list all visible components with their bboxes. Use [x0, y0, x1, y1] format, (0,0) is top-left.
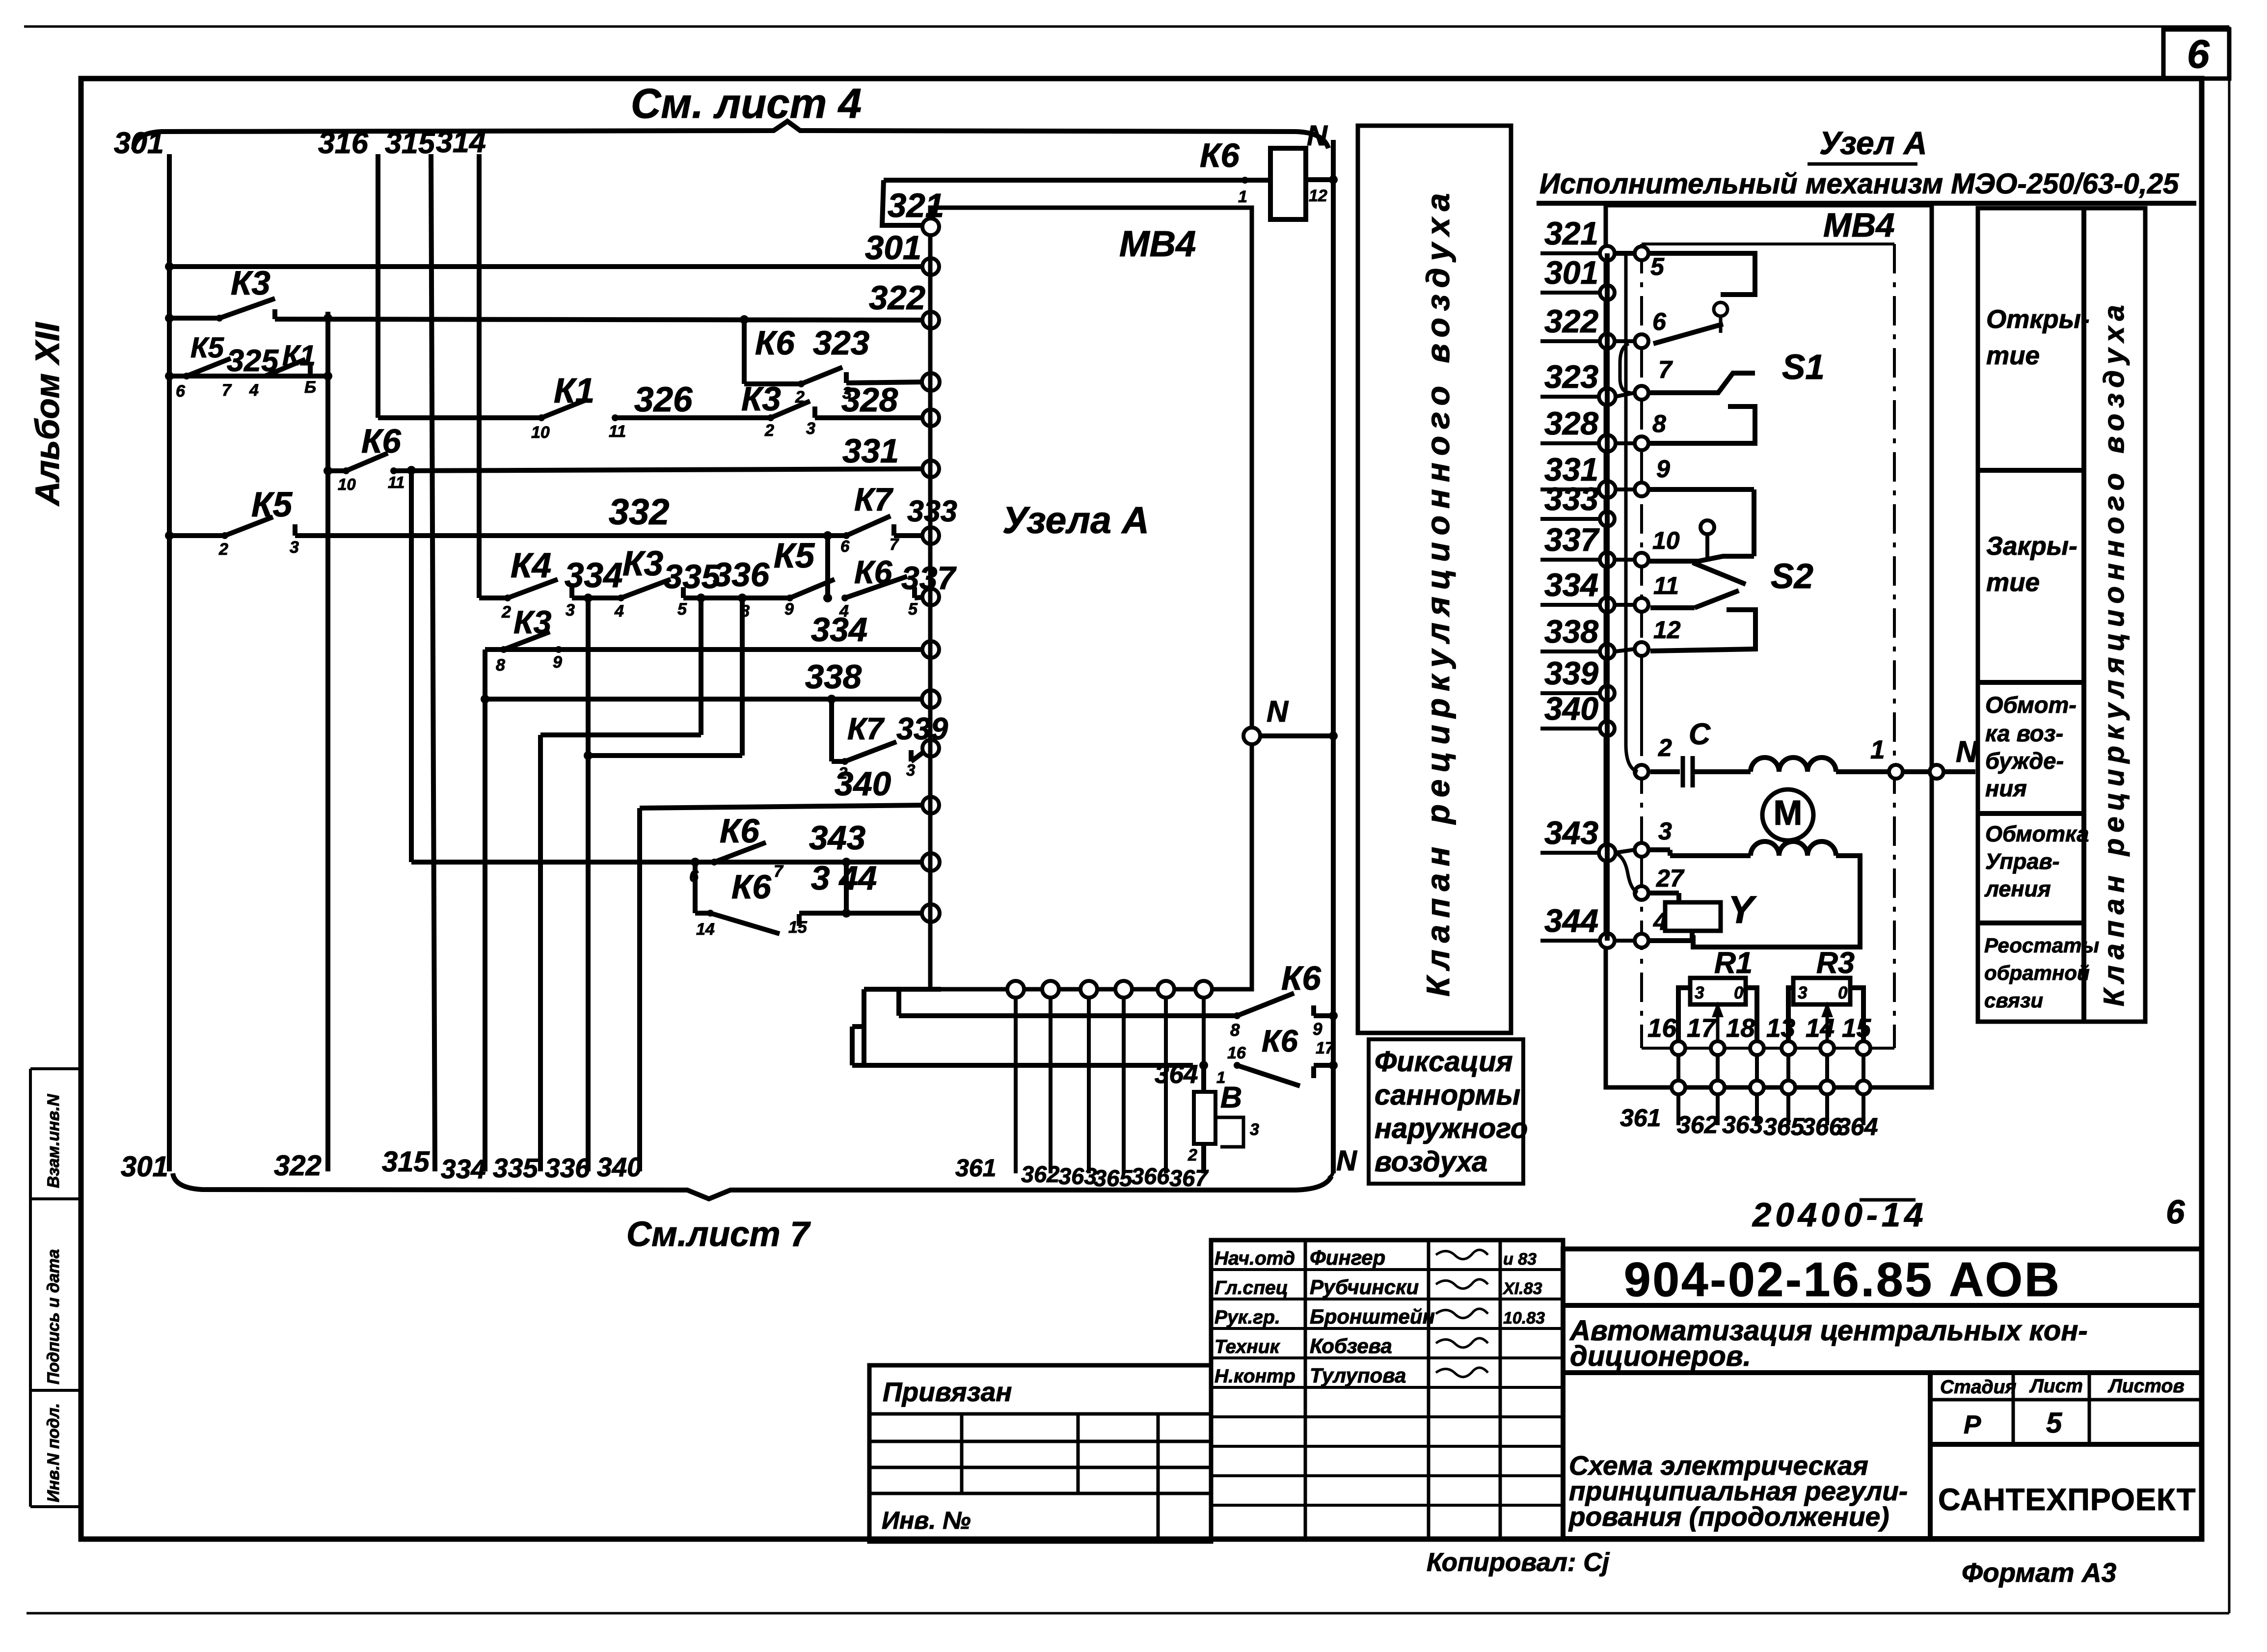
wire row 337 seg3 [683, 596, 790, 600]
contact K6 lower on row 344 [710, 913, 780, 934]
wire N bottom hook [1328, 1164, 1334, 1178]
title h line 2 [1563, 1370, 2202, 1375]
svg-text:наружного: наружного [1375, 1112, 1528, 1144]
node terminal 343 right panel [1599, 844, 1616, 861]
wire 321 corner [882, 180, 923, 225]
svg-text:8: 8 [1652, 410, 1666, 437]
rheostat R3 right terminal [1850, 988, 1863, 1045]
contact K5 on row 332 [225, 517, 273, 536]
stamp column tick 4 [30, 1505, 81, 1508]
node terminal 363 on box bottom [1080, 981, 1097, 998]
svg-text:Рук.гр.: Рук.гр. [1214, 1307, 1280, 1328]
wire terminal-pin link [1615, 393, 1635, 397]
junction row322 to K6-323 drop [740, 315, 749, 324]
svg-text:4: 4 [614, 602, 624, 621]
junction 336 riser [584, 594, 593, 602]
svg-text:6: 6 [840, 537, 850, 555]
actuator enclosure box [1606, 205, 1932, 1087]
switch S2 top riser [1752, 489, 1756, 556]
svg-text:6: 6 [176, 382, 186, 401]
wire node N to N bus [1260, 733, 1333, 738]
people row line 8 [1211, 1504, 1563, 1507]
svg-text:14: 14 [1806, 1014, 1835, 1043]
node 321 on box [922, 218, 939, 235]
svg-text:К1: К1 [554, 372, 594, 410]
node terminal 337 right panel [1600, 552, 1615, 567]
svg-text:воздуха: воздуха [1375, 1146, 1487, 1178]
svg-text:3: 3 [290, 538, 299, 557]
wire bus 316 vertical [376, 154, 380, 418]
node 344 on box [922, 904, 940, 922]
svg-text:Клапан рециркуляционного воз: Клапан рециркуляционного воздуха [2098, 299, 2130, 1006]
svg-text:Рубчински: Рубчински [1310, 1275, 1419, 1299]
svg-text:Узел А: Узел А [1819, 125, 1927, 161]
people row line 6 [1211, 1445, 1563, 1448]
wire row 337 seg2 [572, 596, 621, 600]
contact K5 on row 337 [790, 579, 835, 598]
contact K7 on row 339 [845, 742, 896, 761]
svg-text:14: 14 [696, 920, 715, 939]
node rheostat pin row1 0 [1672, 1041, 1685, 1055]
wire 335 branch horizontal [540, 732, 701, 737]
wire rheostat link 1 [1716, 1055, 1720, 1081]
svg-text:Y: Y [1728, 888, 1757, 931]
wire pin27 curve [1615, 853, 1638, 893]
svg-text:См. лист 4: См. лист 4 [631, 81, 862, 127]
svg-text:R3: R3 [1816, 946, 1855, 979]
svg-text:тие: тие [1986, 568, 2040, 597]
wire stub terminal 340 [1540, 727, 1599, 731]
svg-text:Техник: Техник [1214, 1336, 1281, 1357]
rheostat R3 wiper arrow [1826, 1004, 1829, 1045]
contact K1 on row 325 [265, 359, 305, 376]
people row line 0 [1211, 1268, 1563, 1271]
contact K6 on row 337 [845, 576, 907, 598]
svg-text:365: 365 [1094, 1165, 1133, 1191]
node terminal 334 right panel [1600, 597, 1615, 612]
node terminal 321 right panel [1600, 246, 1615, 261]
junction on wire 321 at coil pin1 [1241, 177, 1248, 184]
junction 338 to K7 drop [827, 695, 836, 704]
switch S1 plunger stem [1719, 316, 1723, 333]
wire pin12 down link [1640, 656, 1643, 756]
node rheostat pin row1 3 [1781, 1041, 1795, 1055]
page outer bottom border line [27, 1612, 2229, 1615]
switch S1 mid terminal [1649, 373, 1755, 393]
svg-text:N: N [1307, 120, 1328, 152]
wire drop 367 [1202, 997, 1206, 1065]
svg-text:322: 322 [1544, 303, 1598, 339]
wire row 322 right segment [272, 309, 277, 319]
svg-text:Р: Р [1964, 1410, 1981, 1439]
wire vertical connector A [862, 989, 866, 1065]
resistor tap bracket [1215, 1117, 1243, 1147]
node terminal 333 right panel [1600, 512, 1615, 526]
wire row 328 right [815, 415, 925, 420]
wire rheostat link 3 [1786, 1055, 1790, 1081]
svg-text:К5: К5 [190, 332, 224, 364]
node 322 on box [922, 312, 939, 328]
svg-text:331: 331 [842, 432, 899, 470]
svg-text:8: 8 [1230, 1021, 1240, 1040]
node 328 on box [922, 409, 939, 426]
wire row 328 middle [615, 415, 771, 420]
people col 2 [1427, 1240, 1430, 1539]
svg-text:333: 333 [1544, 481, 1598, 517]
svg-text:334: 334 [565, 556, 622, 595]
svg-text:0: 0 [1838, 983, 1848, 1002]
top brace wire to sheet 4 [134, 121, 1328, 149]
svg-text:К6: К6 [731, 868, 771, 906]
contact K6 pins 16-17 [1237, 1065, 1300, 1086]
wire control winding loop right [1693, 856, 1860, 947]
stage bottom line [1930, 1442, 2202, 1447]
node terminal 323 right panel [1599, 388, 1616, 405]
svg-text:340: 340 [597, 1152, 642, 1182]
wire drop 338 to row 339 [829, 699, 834, 761]
svg-text:См.лист 7: См.лист 7 [626, 1215, 811, 1254]
junction 344 drop on row 343 [842, 858, 851, 867]
svg-text:Нач.отд: Нач.отд [1214, 1248, 1295, 1269]
svg-text:904-02-16.85 АОВ: 904-02-16.85 АОВ [1624, 1252, 2061, 1306]
svg-text:361: 361 [955, 1154, 996, 1182]
svg-text:5: 5 [2046, 1407, 2062, 1439]
svg-text:К4: К4 [511, 546, 551, 585]
wire rheostat link 2 [1755, 1055, 1759, 1081]
description row divider 3 [1978, 811, 2084, 816]
contact K6 on row 323 [801, 367, 842, 384]
contact K3 on row 322 [219, 298, 275, 318]
svg-text:Привязан: Привязан [883, 1377, 1012, 1407]
svg-text:11: 11 [388, 473, 405, 491]
node terminal 322 right panel [1600, 334, 1615, 349]
svg-text:Бронштейн: Бронштейн [1310, 1305, 1435, 1328]
node 334 on box [922, 641, 939, 658]
contact K7 on row 332-333 [846, 516, 891, 536]
wire stub below 2 [1755, 1094, 1759, 1125]
switch S2 plunger stem [1705, 534, 1709, 560]
wire pin9 bar [1648, 487, 1754, 492]
wire row 301 [169, 264, 925, 269]
svg-text:301: 301 [121, 1151, 168, 1183]
node 343 on box [922, 853, 940, 871]
svg-text:Обмотка: Обмотка [1985, 821, 2089, 846]
svg-text:Н.контр: Н.контр [1214, 1366, 1295, 1387]
pin 3 node inner unit [1635, 843, 1648, 857]
svg-text:18: 18 [1726, 1014, 1755, 1043]
svg-text:362: 362 [1677, 1111, 1718, 1138]
wire drop 332 to row 337 [825, 536, 830, 598]
svg-text:рования (продолжение): рования (продолжение) [1568, 1501, 1889, 1532]
wire vertical 334 drop [483, 650, 487, 1171]
wire vertical connector C [850, 1027, 855, 1065]
wire row 325 from bus 301 [169, 374, 328, 379]
wire cap to winding [1693, 769, 1751, 774]
stage header underline [1930, 1398, 2202, 1402]
svg-text:К3: К3 [513, 604, 551, 640]
svg-text:К5: К5 [251, 486, 293, 524]
switch S2 plunger circle [1700, 520, 1714, 534]
svg-text:связи: связи [1984, 989, 2043, 1012]
wire row 323 drop from 322 [742, 320, 747, 384]
privyazan table box [869, 1365, 1211, 1542]
svg-text:340: 340 [1544, 690, 1598, 727]
svg-text:364: 364 [1155, 1060, 1198, 1089]
svg-text:Тулупова: Тулупова [1310, 1364, 1406, 1387]
wire rheostat link 4 [1825, 1055, 1829, 1081]
wire 321 horizontal to K6 coil [884, 178, 1270, 183]
privyazan h3 [869, 1466, 1211, 1469]
svg-text:343: 343 [809, 819, 865, 857]
inner switch unit chain line top [1642, 243, 1894, 245]
svg-text:Управ-: Управ- [1985, 849, 2060, 874]
wire stub terminal 321 [1540, 251, 1599, 255]
svg-text:10: 10 [1652, 527, 1680, 554]
wire resistor bottom [1201, 1144, 1206, 1173]
svg-text:5: 5 [1650, 253, 1665, 280]
svg-text:328: 328 [841, 381, 898, 419]
svg-text:Исполнительный механизм МЭО-: Исполнительный механизм МЭО-250/63-0,25 [1539, 168, 2179, 200]
wire stub below 5 [1862, 1094, 1865, 1125]
svg-text:322: 322 [274, 1150, 322, 1182]
wire rheostat link 5 [1862, 1055, 1865, 1081]
pin 5 node inner unit [1635, 246, 1648, 260]
wire coil to N bus [1306, 177, 1333, 182]
svg-text:326: 326 [634, 380, 693, 419]
control winding coil [1751, 841, 1836, 856]
svg-text:К6: К6 [1200, 136, 1240, 174]
svg-text:1: 1 [1870, 735, 1885, 764]
svg-text:К3: К3 [741, 380, 781, 418]
svg-text:Инв.N подл.: Инв.N подл. [44, 1403, 63, 1502]
svg-text:337: 337 [1544, 521, 1600, 558]
privyazan v3 [1157, 1414, 1160, 1542]
svg-text:321: 321 [1544, 215, 1598, 251]
svg-text:Узела А: Узела А [1002, 499, 1149, 542]
people row line 7 [1211, 1474, 1563, 1477]
wire terminal-pin link [1615, 603, 1635, 607]
contact K3 on row 328 [771, 401, 810, 418]
node rheostat pin row2 3 [1781, 1081, 1795, 1094]
pin 6 node inner unit [1635, 334, 1648, 348]
capacitor C plate 2 [1691, 756, 1695, 787]
svg-text:2: 2 [1658, 734, 1672, 761]
svg-text:К1: К1 [282, 340, 316, 372]
svg-text:334: 334 [441, 1154, 486, 1184]
rheostat R1 left terminal [1678, 988, 1690, 1045]
node terminal 362 on box bottom [1042, 981, 1059, 998]
svg-text:10: 10 [338, 475, 356, 493]
wire resistor top [1201, 1065, 1206, 1092]
svg-text:Обмот-: Обмот- [1985, 692, 2077, 718]
inner switch unit chain bottom [1642, 1047, 1894, 1050]
wire row n16-n17 right [1314, 1063, 1333, 1068]
wire row 344 right [799, 911, 925, 916]
inner switch unit chain line left [1640, 244, 1643, 1048]
svg-text:3: 3 [566, 601, 575, 620]
svg-text:301: 301 [1544, 254, 1598, 291]
node terminal 301 right panel [1600, 285, 1615, 300]
pin 4 node inner unit [1635, 934, 1648, 948]
motor M circle [1762, 789, 1813, 840]
contact K4 on row 337 [508, 579, 558, 598]
node terminal 366 on box bottom [1158, 981, 1174, 998]
svg-text:2: 2 [501, 603, 511, 622]
svg-text:С: С [1689, 717, 1711, 751]
svg-text:тие: тие [1986, 341, 2040, 370]
wire N stub right [1943, 769, 1975, 774]
switch S2 top wire [1648, 556, 1754, 561]
junction 336b riser [738, 594, 747, 602]
rheostat R3 left terminal [1788, 988, 1793, 1045]
node rheostat pin row1 1 [1711, 1041, 1725, 1055]
svg-text:и 83: и 83 [1503, 1250, 1537, 1269]
svg-text:338: 338 [805, 658, 862, 696]
svg-text:Фиксация: Фиксация [1375, 1046, 1513, 1078]
svg-text:3: 3 [1695, 983, 1704, 1002]
svg-text:К6: К6 [1262, 1024, 1298, 1058]
wire node1 to N node [1903, 769, 1930, 774]
svg-text:332: 332 [609, 491, 669, 532]
wire terminal 321 to pin5 links [1615, 251, 1635, 256]
svg-text:ка воз-: ка воз- [1985, 720, 2063, 746]
node rheostat pin row2 1 [1711, 1081, 1725, 1094]
wire row 334 [485, 647, 925, 652]
solenoid Y box [1665, 902, 1721, 931]
node terminal 328 right panel [1599, 435, 1616, 452]
svg-text:диционеров.: диционеров. [1570, 1340, 1751, 1372]
pin 12 node inner unit [1635, 642, 1648, 656]
wire pin27 to Y box [1648, 891, 1679, 895]
wire stub terminal 334 [1540, 603, 1599, 607]
svg-text:7: 7 [222, 381, 232, 400]
wire rheostat link 0 [1676, 1055, 1680, 1081]
wire row 337 to node [915, 597, 925, 598]
svg-text:К3: К3 [622, 544, 663, 583]
node rheostat pin row1 4 [1820, 1041, 1834, 1055]
svg-text:САНТЕХПРОЕКТ: САНТЕХПРОЕКТ [1938, 1483, 2196, 1517]
node 337 on box [922, 589, 939, 605]
privyazan h1 [869, 1412, 1211, 1416]
svg-text:8: 8 [496, 656, 505, 675]
block fiksaciya box [1369, 1039, 1523, 1184]
svg-text:Формат А3: Формат А3 [1962, 1557, 2116, 1588]
pin 3 stub [1640, 857, 1643, 884]
svg-text:К7: К7 [854, 481, 894, 517]
pin 11 node inner unit [1635, 598, 1648, 612]
wire bus N vertical [1331, 140, 1336, 1173]
wire stub terminal 343 [1540, 851, 1599, 855]
people signature 3 [1436, 1338, 1488, 1348]
svg-text:338: 338 [1544, 613, 1598, 650]
node rheostat pin row1 5 [1857, 1041, 1870, 1055]
block recirculation valve box [1358, 126, 1511, 1033]
svg-text:4: 4 [249, 381, 259, 400]
node 323 on box [922, 373, 940, 391]
rheostat R1 box [1690, 978, 1746, 1004]
svg-text:Кобзева: Кобзева [1310, 1334, 1392, 1357]
wire stub terminal 337 [1540, 558, 1599, 562]
wire box bottom extension left [864, 987, 941, 992]
svg-text:363: 363 [1058, 1163, 1097, 1189]
svg-text:343: 343 [1544, 814, 1598, 851]
svg-text:5: 5 [908, 600, 918, 619]
svg-text:344: 344 [1544, 902, 1598, 939]
rheostat R1 wiper arrow [1716, 1004, 1720, 1045]
wire stub below 3 [1786, 1094, 1790, 1125]
wire row 340 [640, 805, 925, 808]
wire bus 314 vertical [477, 154, 482, 598]
resistor R feedback [1194, 1092, 1215, 1144]
wire row 331 right [394, 469, 925, 471]
svg-text:7: 7 [1658, 356, 1673, 383]
svg-text:МВ4: МВ4 [1823, 206, 1895, 244]
description row divider 4 [1978, 921, 2084, 925]
svg-text:S2: S2 [1771, 557, 1813, 596]
svg-text:К6: К6 [720, 812, 759, 850]
svg-text:M: M [1773, 794, 1802, 833]
svg-text:11: 11 [1653, 572, 1679, 599]
svg-text:0: 0 [1734, 983, 1744, 1002]
svg-text:27: 27 [1656, 865, 1685, 892]
block Uzel A box [930, 208, 1252, 989]
privyazan v2 [1077, 1414, 1080, 1493]
svg-text:Стадия: Стадия [1940, 1377, 2016, 1398]
svg-text:ления: ления [1984, 876, 2051, 901]
wire capacitor row [1650, 769, 1680, 774]
svg-text:К6: К6 [854, 554, 893, 590]
people table box [1211, 1240, 1563, 1539]
wire stub terminal 322 [1540, 339, 1599, 343]
pin 10 node inner unit [1635, 553, 1648, 567]
wire bus 315 vertical [431, 154, 435, 1171]
contact K6 on row 331 [346, 453, 388, 471]
contact K3 on row 334 [504, 632, 550, 650]
wire stub terminal 339 [1540, 691, 1599, 695]
svg-text:336: 336 [713, 556, 770, 594]
wire drop 361 [1014, 997, 1018, 1173]
pin 7 node inner unit [1635, 386, 1648, 400]
switch S2 mid wire and blade [1650, 605, 1695, 610]
wire 336 branch horizontal [588, 753, 742, 758]
svg-text:К5: К5 [774, 537, 815, 575]
node terminal 340 right panel [1600, 721, 1615, 736]
stage col 3 [2088, 1373, 2091, 1444]
node 340 on box [922, 797, 939, 813]
svg-text:2: 2 [1187, 1146, 1197, 1165]
svg-text:325: 325 [227, 344, 279, 378]
svg-text:9: 9 [1313, 1020, 1322, 1039]
description table box [1978, 208, 2145, 1022]
wire stub terminal 328 [1540, 441, 1599, 445]
svg-text:16: 16 [1647, 1014, 1676, 1043]
svg-text:9: 9 [553, 653, 562, 672]
stage col 2 [2012, 1373, 2015, 1444]
contact K1 on row 328 [541, 399, 588, 418]
wire row n16-n17 [852, 1063, 1193, 1068]
svg-text:316: 316 [318, 126, 369, 160]
contact K5 on row 325 [187, 358, 231, 376]
wire drop 343 to 344 [844, 862, 849, 913]
node 333 on box [922, 527, 939, 544]
pin 27 node inner unit [1635, 886, 1648, 900]
svg-text:328: 328 [1544, 405, 1598, 441]
strike line over 14 [1860, 1198, 1916, 1202]
contact K6 on row 343 [714, 842, 766, 862]
wire stub terminal 333 [1540, 517, 1599, 521]
switch S1 plunger circle [1714, 302, 1727, 316]
node rheostat pin row2 5 [1857, 1081, 1870, 1094]
